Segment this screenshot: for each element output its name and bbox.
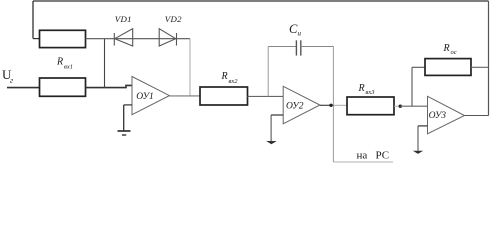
wire right feedback drop [488,1,490,116]
wire input Uг to Rвх1 [7,87,40,89]
wire Rвх2 to ОУ2 inverting input [248,95,284,97]
wire Rос right terminal to feedback drop [471,66,489,68]
svg-text:R: R [443,43,450,54]
wire capacitor right riser down through output junction to PC drop [332,47,334,163]
ground ОУ2 (arrow style) [266,115,277,144]
resistor Rвх3 [347,97,394,115]
svg-text:ос: ос [451,49,457,56]
wire Rос left branch riser [411,67,413,106]
svg-text:ОУ2: ОУ2 [286,101,304,111]
svg-text:ОУ3: ОУ3 [429,111,447,121]
wire stub to top resistor [33,38,40,40]
junction dot before ОУ3 [399,105,402,108]
wire junction to ОУ3 inverting input [400,105,427,107]
svg-text:вх1: вх1 [64,64,73,71]
wire Rвх1 to ОУ1 inverting input (with jog) [86,85,133,87]
wire top feedback run [33,0,489,2]
op-amp ОУ1 [132,77,169,115]
wire riser to Rос left terminal [412,66,425,68]
wire top-left riser [32,1,34,39]
wire output run to PC [333,161,393,163]
op-amp ОУ3 [428,96,465,134]
svg-text:R: R [358,83,365,94]
diode VD1 [114,29,132,46]
svg-text:VD1: VD1 [115,14,132,24]
wire diode branch drop to ОУ1 output [189,39,191,96]
wire ОУ2 noninverting input [271,114,283,116]
wire ОУ2 output to junction [320,104,334,106]
svg-text:вх2: вх2 [229,78,239,85]
wire ОУ3 noninverting input [418,125,428,127]
wire capacitor branch left riser [267,47,269,97]
svg-text:г: г [10,76,13,85]
wire junction to Rвх3 [333,104,347,106]
capacitor Cи [296,40,300,55]
wire ОУ1 output to Rвх2 [169,95,200,97]
wire ОУ3 output to feedback drop [465,115,489,117]
resistor Rос [425,59,471,76]
wire junction riser to diode/feedback row [104,39,106,88]
diode VD2 [159,29,176,46]
svg-text:R: R [56,57,63,68]
svg-text:вх3: вх3 [366,89,376,96]
svg-text:на: на [357,150,368,162]
op-amp ОУ2 [283,86,320,124]
ground ОУ1 [118,105,131,135]
ground ОУ3 (arrow style) [413,126,423,154]
wire top resistor through diodes to corner [86,38,191,40]
resistor Rвх1 [40,78,86,96]
wire capacitor right plate to right riser [301,46,334,48]
svg-text:R: R [221,71,228,82]
junction dot at ОУ2 output [329,104,332,107]
wire to capacitor left plate [268,46,296,48]
svg-text:РС: РС [376,150,390,162]
svg-text:VD2: VD2 [165,14,182,24]
svg-text:ОУ1: ОУ1 [136,92,153,102]
resistor feedback (top, unlabeled) [40,30,86,47]
wire Rвх3 to junction dot [394,105,400,107]
svg-text:и: и [298,30,302,38]
wire ОУ1 noninverting input [124,104,132,106]
resistor Rвх2 [200,87,248,105]
